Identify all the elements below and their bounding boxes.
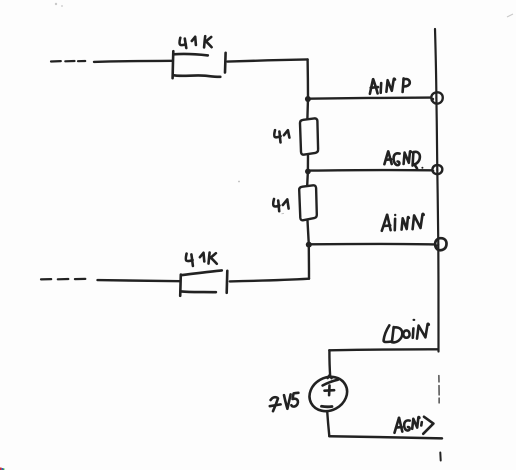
- pin AINP circle: [431, 92, 442, 103]
- label R4 value 41K: [186, 253, 217, 266]
- wire: AGND horizontal: [308, 169, 432, 172]
- label R2 value 41: [274, 130, 289, 142]
- wire: row2 corner to R4: [230, 279, 309, 282]
- resistor R1 41K (horizontal): [173, 51, 226, 78]
- label net AINN: [382, 214, 424, 231]
- pin AINN circle: [435, 238, 446, 250]
- label R3 value 41: [273, 199, 288, 211]
- label V1 value 7V5: [270, 393, 299, 411]
- wire: corner down to node AINP: [306, 59, 309, 98]
- label net AGND bottom: [395, 417, 434, 434]
- wire: row2 horizontal left of R4: [98, 280, 181, 281]
- wire: row1 dashed stub: [51, 60, 85, 63]
- wire: AINP horizontal: [308, 98, 431, 99]
- label net LDOIN: [384, 319, 429, 343]
- bus bottom tick: [439, 453, 441, 461]
- wire: AINN horizontal: [309, 243, 434, 246]
- wire: node AINN down to row2 corner: [308, 247, 311, 279]
- wire: V1 down to bottom corner: [327, 411, 329, 436]
- wire: node AINP to resistor R2: [306, 102, 309, 119]
- voltage source V1: [303, 370, 353, 417]
- node junction dot AGND: [305, 169, 311, 175]
- pin AGND circle: [432, 165, 442, 174]
- resistor R3 41 (vertical): [299, 185, 317, 220]
- wire: LDOIN corner down to V1: [328, 350, 331, 376]
- resistor R2 41 (vertical): [300, 118, 318, 154]
- right vertical bus line: [435, 29, 439, 352]
- label net AINP: [370, 78, 410, 93]
- bus faint dashed continuation: [438, 376, 440, 404]
- wire: row2 dashed stub: [41, 278, 85, 281]
- wire: R3 to node AINN: [308, 221, 309, 243]
- resistor R4 41K (horizontal): [180, 270, 227, 295]
- node junction dot AINN: [306, 242, 312, 248]
- label R1 value 41K: [180, 36, 212, 48]
- wire: R2 to node AGND: [307, 155, 310, 169]
- wire: row1 horizontal into R1: [94, 61, 173, 62]
- label net AGND: [384, 151, 420, 168]
- wire: R1 to bus corner: [228, 59, 308, 61]
- node junction dot AINP: [305, 96, 311, 102]
- ink dot after AGND: [421, 167, 423, 169]
- wire: bottom AGND horizontal: [329, 436, 442, 438]
- wire: LDOIN horizontal: [329, 349, 438, 350]
- wire: node AGND to resistor R3: [306, 173, 309, 186]
